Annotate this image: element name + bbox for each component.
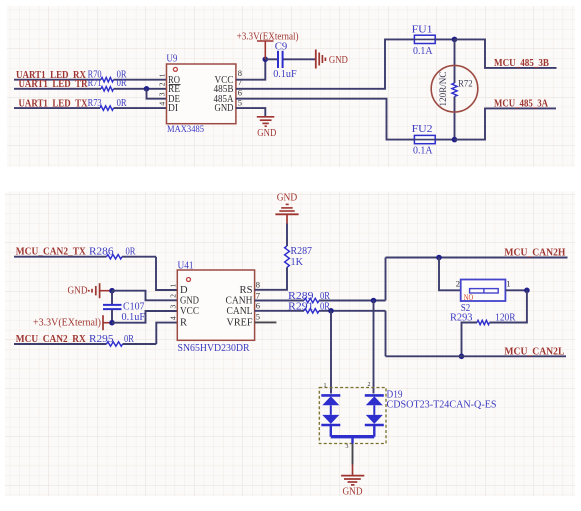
wire to C9	[265, 58, 315, 60]
wire R72 vertical	[454, 39, 456, 139]
junction CANL/D19	[328, 308, 334, 314]
wire GND to R287	[286, 224, 288, 247]
ground GND above R287	[275, 192, 298, 223]
svg-text:2: 2	[368, 382, 371, 388]
svg-text:D: D	[180, 285, 188, 296]
U41 pin numbers left	[168, 284, 177, 321]
bottom sheet grid	[5, 192, 575, 497]
svg-text:GND: GND	[343, 486, 363, 497]
junction VCC node	[263, 57, 269, 63]
svg-text:R72: R72	[458, 79, 473, 89]
wire TX row	[14, 257, 177, 290]
svg-text:RS: RS	[240, 285, 253, 296]
wire CANL row	[255, 310, 386, 312]
wire R293 to CAN2L	[462, 323, 478, 357]
resistor R71	[88, 78, 127, 91]
wire C107 vertical bottom	[111, 310, 113, 323]
svg-text:6: 6	[256, 301, 260, 311]
net UART1_LED_TX	[19, 99, 89, 110]
resistor R293 120R	[450, 313, 516, 325]
capacitor C9	[273, 42, 297, 80]
junction FU2/R72	[452, 137, 458, 143]
net MCU_485_3B	[494, 58, 549, 69]
wire CANH riser	[385, 258, 387, 301]
svg-text:2: 2	[168, 294, 177, 298]
power +3.3V(EXternal) bottom	[33, 315, 112, 330]
wire CAN2H to S2	[439, 258, 461, 291]
svg-text:VREF: VREF	[227, 318, 253, 329]
junction C107 bottom	[109, 320, 115, 326]
svg-text:0R: 0R	[124, 334, 134, 345]
svg-text:1: 1	[158, 73, 167, 77]
svg-text:SN65HVD230DR: SN65HVD230DR	[178, 343, 250, 354]
resistor R291	[288, 301, 330, 313]
svg-text:GND: GND	[180, 295, 199, 306]
junction S2/R293	[524, 288, 530, 294]
resistor R287 1K	[285, 246, 312, 268]
svg-text:4: 4	[168, 316, 177, 320]
svg-text:2: 2	[158, 82, 167, 86]
svg-text:+3.3V(EXternal): +3.3V(EXternal)	[33, 318, 101, 329]
svg-text:0.1uF: 0.1uF	[122, 312, 146, 323]
svg-text:C107: C107	[123, 301, 145, 312]
svg-text:FU1: FU1	[412, 25, 433, 36]
svg-text:3: 3	[158, 92, 167, 96]
junction CANH/D19	[371, 298, 377, 304]
wire CANH to D19	[373, 301, 375, 394]
wire to DE	[147, 89, 167, 99]
wire 485B to FU1	[236, 39, 455, 88]
svg-text:3: 3	[346, 444, 349, 450]
wire GND pin5	[236, 108, 265, 116]
wire MCU_CAN2H line	[386, 257, 568, 259]
svg-text:R73: R73	[88, 98, 102, 109]
svg-text:NO: NO	[464, 292, 474, 302]
fuse FU2	[412, 124, 436, 156]
svg-text:MCU_CAN2H: MCU_CAN2H	[504, 247, 565, 258]
op-amp U9 MAX3485	[166, 54, 236, 135]
resistor R73	[88, 98, 127, 110]
junction RE/DE	[144, 86, 150, 92]
svg-text:MCU_485_3A: MCU_485_3A	[494, 99, 549, 110]
net MCU_CAN2_RX	[16, 334, 87, 345]
svg-text:0R: 0R	[117, 78, 127, 89]
junction FU1/R72	[452, 37, 458, 43]
wire C107 vertical top	[111, 291, 113, 304]
ground GND right of C9	[316, 50, 348, 69]
wire VREF stub	[255, 321, 277, 323]
svg-text:FU2: FU2	[412, 124, 433, 135]
junction CAN2H/S2	[436, 255, 442, 261]
net MCU_CAN2_TX	[16, 247, 87, 258]
svg-text:R71: R71	[88, 78, 102, 89]
net MCU_485_3A	[494, 99, 549, 110]
svg-text:0.1uF: 0.1uF	[273, 69, 297, 80]
wire RE row	[14, 88, 167, 90]
ground GND left port	[68, 283, 113, 298]
wire VCC pin8	[236, 59, 265, 79]
wire to MCU_485_3B	[455, 39, 557, 68]
transceiver U41 SN65HVD230DR	[177, 261, 254, 354]
wire CANL to CAN2L line	[386, 311, 567, 357]
junction R293/CAN2L	[459, 354, 465, 360]
wire D19 to ground	[352, 444, 354, 465]
svg-text:0R: 0R	[126, 247, 136, 258]
wire CANL to D19	[330, 311, 332, 394]
svg-text:1: 1	[506, 279, 510, 289]
net UART1_LED_TR	[19, 79, 89, 90]
junction C107 top	[109, 288, 115, 294]
svg-text:4: 4	[158, 102, 167, 106]
svg-text:MCU_CAN2L: MCU_CAN2L	[504, 347, 564, 358]
capacitor C107	[103, 301, 145, 323]
svg-text:MCU_485_3B: MCU_485_3B	[494, 58, 549, 69]
svg-text:R295: R295	[89, 334, 114, 345]
ground below D19	[341, 465, 364, 498]
power +3.3V(EXternal)	[237, 32, 299, 60]
svg-text:VCC: VCC	[180, 306, 199, 317]
resistor R72 120R/NC	[431, 65, 478, 112]
svg-text:1: 1	[324, 383, 327, 389]
svg-text:R287: R287	[291, 246, 313, 257]
wire DI row	[14, 107, 167, 109]
svg-text:CDSOT23-T24CAN-Q-ES: CDSOT23-T24CAN-Q-ES	[387, 399, 497, 410]
svg-text:CANL: CANL	[227, 306, 253, 317]
svg-text:GND: GND	[329, 55, 348, 66]
svg-text:R: R	[180, 318, 187, 329]
svg-text:R291: R291	[288, 301, 314, 312]
svg-text:1: 1	[168, 284, 177, 288]
wire to U41 VCC pin	[112, 311, 177, 323]
wire 485A to FU2	[236, 99, 455, 140]
D19 pin numbers	[324, 382, 371, 450]
svg-text:R286: R286	[89, 247, 114, 258]
svg-text:GND: GND	[215, 103, 234, 114]
svg-text:U41: U41	[178, 261, 194, 272]
switch S2	[456, 279, 511, 315]
svg-text:8: 8	[256, 280, 260, 290]
wire to MCU_485_3A	[455, 108, 557, 139]
svg-text:7: 7	[256, 290, 260, 300]
svg-text:GND: GND	[277, 192, 298, 203]
svg-text:GND: GND	[68, 286, 88, 297]
svg-text:5: 5	[256, 312, 260, 322]
wire R287 to RS pin	[255, 267, 287, 290]
svg-text:DI: DI	[168, 103, 178, 114]
U9 pin numbers right	[238, 68, 242, 108]
net MCU_CAN2H	[504, 247, 565, 258]
svg-text:3: 3	[168, 305, 177, 309]
wire RO row	[14, 79, 167, 81]
svg-text:120R: 120R	[495, 313, 515, 324]
svg-text:0.1A: 0.1A	[413, 46, 433, 57]
svg-text:7: 7	[238, 77, 242, 87]
svg-text:120R/NC: 120R/NC	[439, 72, 449, 107]
diode D19 CDSOT23-T24CAN-Q-ES	[319, 388, 496, 444]
U41 pin numbers right	[256, 280, 260, 322]
ground below U9	[257, 117, 277, 139]
svg-text:GND: GND	[257, 128, 276, 139]
resistor R70	[88, 70, 127, 82]
svg-text:2: 2	[456, 279, 460, 289]
wire S2 pin1	[505, 289, 527, 291]
svg-text:C9: C9	[275, 42, 288, 53]
U9 pin numbers left	[158, 73, 167, 105]
svg-text:1K: 1K	[291, 257, 304, 268]
svg-text:0R: 0R	[117, 98, 127, 109]
net MCU_CAN2L	[504, 347, 564, 358]
wire to U41 GND pin	[112, 291, 177, 301]
svg-text:U9: U9	[166, 54, 177, 65]
svg-text:0.1A: 0.1A	[413, 146, 433, 157]
wire S2 to R293	[490, 290, 527, 322]
wire CANH row	[255, 300, 386, 302]
wire RX row	[14, 323, 177, 344]
resistor R289	[288, 291, 330, 303]
resistor R286	[89, 247, 136, 259]
top sheet grid	[7, 6, 575, 167]
fuse FU1	[412, 25, 436, 57]
net UART1_LED_RX	[16, 70, 87, 81]
svg-text:MAX3485: MAX3485	[167, 125, 204, 135]
resistor R295	[89, 334, 134, 346]
